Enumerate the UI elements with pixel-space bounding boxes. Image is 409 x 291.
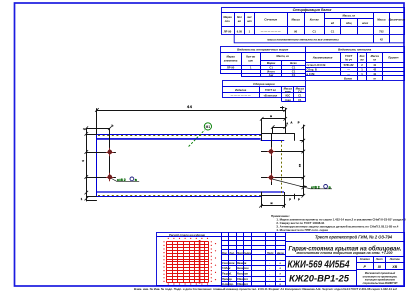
table T3 metal list outline [305, 47, 404, 81]
left vertical dimension line [85, 128, 97, 201]
mark M1 leader (green dashed) [189, 130, 205, 147]
svg-text:С1: С1 [298, 98, 302, 102]
svg-text:во: во [360, 59, 364, 62]
svg-text:г: г [280, 278, 282, 281]
svg-text:Ведомость отправочных марок: Ведомость отправочных марок [237, 47, 288, 51]
svg-text:Согласов: Согласов [222, 261, 235, 265]
svg-text:Сбор. В: Сбор. В [307, 67, 317, 71]
svg-text:С1: С1 [298, 94, 302, 98]
svg-text:90: 90 [294, 30, 297, 34]
svg-text:с=8 2: с=8 2 [117, 178, 126, 182]
svg-text:Всех: Всех [290, 61, 297, 65]
svg-text:Сб: Сб [298, 89, 302, 93]
svg-text:№док: №док [244, 252, 252, 255]
svg-text:в: в [329, 185, 331, 189]
svg-text:кг: кг [373, 77, 376, 80]
svg-text:с=8 2: с=8 2 [311, 185, 320, 189]
svg-text:2: 2 [82, 128, 86, 130]
table T4 assembly marks outline [222, 81, 306, 102]
svg-text:Обнорск: Обнорск [237, 282, 249, 286]
bolt centre line left [109, 128, 111, 181]
adjacent element corner vertical [294, 133, 296, 141]
title block right section rows [285, 241, 404, 243]
svg-text:А: А [291, 121, 293, 125]
svg-text:—: — [347, 68, 350, 71]
svg-text:b: b [112, 124, 114, 128]
svg-text:41: 41 [373, 63, 376, 67]
bolt B2 [267, 173, 275, 181]
svg-text:во: во [238, 20, 242, 23]
svg-text:ГОСТ: ГОСТ [345, 54, 353, 58]
svg-text:г: г [280, 273, 282, 276]
panel top far edge (thin blue) [97, 134, 261, 136]
bolt tie line right upper [261, 151, 303, 153]
svg-text:Изм: Изм [222, 252, 227, 255]
panel bottom hidden line (olive dashed) [98, 195, 261, 197]
panel top hidden centre line (olive dashed) [98, 135, 261, 137]
title block outline [221, 232, 404, 287]
table T3 texts [307, 47, 399, 80]
svg-text:упак: упак [284, 90, 292, 93]
svg-text:.: . [270, 273, 271, 276]
svg-text:Масса: Масса [371, 54, 380, 58]
svg-text:— — — — — —: — — — — — — [261, 30, 281, 33]
svg-text:ЛР 90: ЛР 90 [224, 30, 232, 34]
svg-text:М1: М1 [206, 125, 211, 129]
svg-text:III: III [378, 265, 382, 269]
table T2 texts [224, 47, 297, 77]
adjacent element bottom line (black) [261, 195, 303, 197]
bolt A2 [106, 173, 114, 181]
notes block [271, 214, 406, 232]
stage grid texts [360, 258, 400, 269]
svg-text:С1: С1 [331, 30, 335, 34]
svg-text:Масса: Масса [377, 18, 386, 22]
svg-text:Листов: Листов [389, 258, 400, 261]
svg-text:Кол-во: Кол-во [246, 55, 255, 59]
svg-text:42: 42 [380, 38, 383, 42]
svg-text:.: . [270, 267, 271, 270]
svg-text:КЖИ-569 4И5Б4: КЖИ-569 4И5Б4 [288, 259, 350, 271]
svg-text:— — — — — —: — — — — — — [231, 94, 251, 97]
svg-text:монолитная плита покрытия гара: монолитная плита покрытия гаража на отм.… [297, 251, 393, 255]
svg-text:Сборка марки: Сборка марки [253, 82, 275, 86]
svg-text:Итого: Итого [267, 70, 275, 74]
title block signature rows [222, 261, 282, 286]
svg-text:—: — [347, 73, 350, 76]
svg-text:1: 1 [81, 197, 83, 201]
svg-text:Р: Р [289, 198, 291, 202]
panel left edge (blue) [96, 134, 98, 197]
svg-text:Лист: Лист [375, 258, 384, 261]
svg-text:зв: зв [298, 164, 302, 167]
svg-text:сетка С-8=СтВ: сетка С-8=СтВ [307, 63, 326, 67]
bolt A1 [106, 148, 114, 156]
svg-text:2: 2 [361, 63, 363, 67]
panel right notch top edge (blue) [261, 140, 285, 142]
right nested dimension [271, 125, 287, 133]
bolt tie line left lower [86, 177, 116, 179]
svg-text:всех: всех [362, 22, 369, 25]
svg-text:ЮС: ЮС [285, 94, 290, 98]
svg-text:Провер.: Провер. [222, 277, 233, 281]
svg-text:в: в [270, 114, 272, 118]
svg-text:и СтМ: и СтМ [307, 72, 316, 76]
right end step verticals (black) [261, 133, 263, 141]
svg-text:Расход стали на изделие: Расход стали на изделие [169, 233, 205, 237]
svg-text:Марка: Марка [223, 15, 232, 19]
svg-text:Подп: Подп [267, 252, 274, 255]
svg-text:тВ металл: тВ металл [264, 94, 278, 98]
svg-text:Примечание: Примечание [389, 18, 406, 22]
svg-text:Р: Р [298, 121, 300, 125]
stage grid [356, 256, 358, 286]
svg-text:Марка: Марка [226, 55, 235, 59]
table T4 texts [231, 82, 305, 102]
svg-text:5781-82: 5781-82 [344, 63, 354, 67]
svg-text:в: в [135, 178, 137, 182]
left small dimension b [85, 126, 112, 130]
revision stamp frame (blue) [157, 233, 222, 286]
title block left grid rows [221, 236, 285, 238]
svg-text:ед: ед [331, 21, 335, 25]
table T1 merged total row [234, 34, 404, 42]
svg-text:Новиков: Новиков [237, 272, 249, 276]
svg-text:С1: С1 [269, 66, 273, 70]
top dimension line 44 [95, 108, 287, 134]
svg-text:Иванов: Иванов [237, 261, 247, 265]
title block header texts [222, 252, 285, 255]
svg-text:41: 41 [373, 72, 376, 76]
svg-text:С1: С1 [292, 66, 296, 70]
svg-text:Разраб.: Разраб. [222, 272, 232, 276]
svg-text:шт: шт [248, 59, 253, 62]
svg-text:4: 4 [81, 160, 85, 162]
table T2 shipping marks outline [220, 47, 305, 77]
svg-text:КЖ20-ВР1-25: КЖ20-ВР1-25 [289, 273, 350, 284]
svg-text:общ: общ [346, 21, 352, 25]
svg-text:Р: Р [363, 265, 366, 269]
tick mark under table T4 [280, 106, 284, 109]
svg-text:Марки: Марки [267, 61, 276, 65]
organisation cell texts [363, 272, 398, 285]
svg-text:Масса, кг: Масса, кг [343, 14, 356, 18]
bolt centre line right [271, 133, 273, 185]
svg-text:Наименование: Наименование [313, 56, 333, 60]
weld label left circle [130, 177, 134, 181]
title block left grid verticals [228, 232, 230, 286]
panel top near edge (thick blue) [97, 138, 261, 140]
svg-text:.: . [270, 278, 271, 281]
svg-text:Никитин: Никитин [237, 266, 249, 270]
revision stamp red dot borders [163, 238, 216, 285]
svg-text:м: м [270, 201, 272, 205]
svg-text:Масса, кг: Масса, кг [276, 54, 289, 58]
svg-text:Кол: Кол [360, 54, 365, 58]
svg-text:Дата: Дата [276, 252, 284, 255]
svg-text:ЛР 90: ЛР 90 [227, 66, 235, 70]
svg-text:Стадия: Стадия [360, 258, 370, 261]
weld label left leader [112, 179, 140, 182]
svg-text:Обнорск: Обнорск [237, 277, 249, 281]
svg-text:лис: лис [246, 16, 252, 19]
svg-text:Спецификация балок: Спецификация балок [293, 8, 332, 12]
svg-text:поз.: поз. [225, 20, 231, 23]
svg-text:масса наплавленного металла на: масса наплавленного металла на все элеме… [267, 37, 339, 41]
svg-text:кг: кг [373, 59, 376, 62]
svg-text:Кол: Кол [237, 15, 242, 19]
svg-text:Ведомость металла: Ведомость металла [338, 47, 372, 51]
bolt tie line left upper [86, 152, 116, 154]
svg-text:шт: шт [247, 20, 252, 23]
svg-text:Масса: Масса [291, 18, 300, 22]
svg-text:лчки: лчки [285, 99, 292, 102]
svg-text:1: 1 [249, 30, 251, 34]
svg-text:.: . [270, 262, 271, 265]
right vertical dimension line [300, 125, 307, 198]
weld label right leader [272, 179, 332, 189]
svg-text:Кол-во: Кол-во [310, 18, 319, 22]
svg-text:6.05: 6.05 [237, 30, 243, 34]
svg-text:4. Монтаж вести по ППР согл. с: 4. Монтаж вести по ППР согл. серии [276, 228, 328, 232]
panel bottom near edge (blue) [97, 191, 284, 193]
svg-text:Изделие: Изделие [235, 88, 247, 92]
svg-text:г: г [280, 262, 282, 265]
panel bottom far edge (thin blue) [97, 196, 261, 198]
svg-text:Н.контр.: Н.контр. [222, 282, 234, 286]
svg-text:Сечение: Сечение [264, 18, 277, 22]
right upper dimension в [260, 117, 287, 133]
bolt B1 [267, 147, 275, 155]
svg-text:Трест оргтехстрой ГИМ, № 2 ОЗ: Трест оргтехстрой ГИМ, № 2 ОЗ-794 [315, 234, 392, 241]
mark M1 circle (green) [204, 123, 211, 130]
svg-text:752: 752 [379, 30, 384, 34]
bottom right dimension м [259, 192, 294, 208]
bolt tie line right lower [261, 177, 303, 179]
svg-text:Кол.: Кол. [230, 252, 236, 255]
table T1 specification outline [221, 8, 405, 43]
svg-text:строительства МНИИТЭП: строительства МНИИТЭП [363, 282, 398, 285]
svg-text:ГлИнж: ГлИнж [222, 266, 232, 270]
svg-text:Р: Р [298, 198, 300, 202]
svg-text:Всего: Всего [344, 76, 352, 80]
svg-text:С1: С1 [292, 73, 296, 77]
svg-text:№ уч: № уч [345, 59, 352, 62]
svg-text:Взам. инв. № Инв. № подл.: Взам. инв. № Инв. № подл. Подп. и дата С… [134, 287, 397, 291]
svg-text:элемента: элемента [224, 59, 238, 62]
svg-text:Примеч: Примеч [388, 56, 399, 60]
svg-text:С1: С1 [292, 70, 296, 74]
svg-text:ГОСТ эл: ГОСТ эл [265, 88, 276, 92]
svg-text:44: 44 [187, 105, 193, 109]
support axis (olive dashed vertical) [281, 141, 283, 196]
revision stamp red grid [167, 240, 209, 284]
svg-text:г: г [280, 267, 282, 270]
svg-text:С1: С1 [312, 30, 316, 34]
table T1 texts [223, 8, 405, 42]
adjacent element top line (black) [261, 133, 295, 135]
svg-text:42: 42 [373, 67, 376, 71]
svg-text:ХВ: ХВ [391, 265, 397, 269]
svg-text:А: А [286, 121, 288, 125]
weld label right circle [324, 185, 328, 189]
